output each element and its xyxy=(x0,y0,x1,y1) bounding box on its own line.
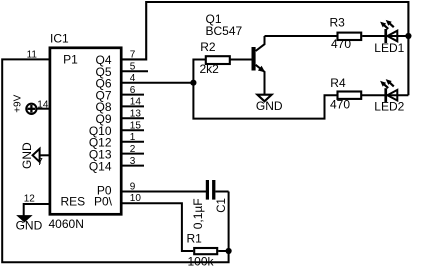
svg-text:15: 15 xyxy=(130,121,142,132)
junction at LED1 / right rail xyxy=(405,33,411,39)
svg-text:11: 11 xyxy=(27,50,38,61)
svg-text:100k: 100k xyxy=(188,254,215,268)
junction at R1 / right loop xyxy=(226,248,232,254)
ground symbol at Q1 emitter xyxy=(257,95,271,102)
svg-text:+9V: +9V xyxy=(13,94,24,112)
transistor Q1 emitter lead xyxy=(256,65,265,95)
wire pin 12 (RES) to GND xyxy=(24,204,49,216)
svg-text:R2: R2 xyxy=(200,40,216,54)
svg-text:6: 6 xyxy=(130,85,136,96)
transistor Q1 collector lead xyxy=(256,36,265,51)
transistor Q1 base bar xyxy=(252,47,256,71)
wire pin 15 stub xyxy=(123,129,145,131)
wire R4 right through LED2 to right rail xyxy=(362,94,409,96)
svg-text:IC1: IC1 xyxy=(50,32,69,46)
svg-text:R4: R4 xyxy=(330,76,346,90)
wire pin 4 (Q6) to junction xyxy=(123,82,194,84)
svg-text:10: 10 xyxy=(130,193,142,204)
svg-text:13: 13 xyxy=(130,109,142,120)
svg-text:C1: C1 xyxy=(216,198,228,213)
wire GND to pin 7 left xyxy=(40,154,49,156)
svg-text:LED2: LED2 xyxy=(374,100,404,114)
wire pin 1 stub xyxy=(123,141,145,143)
svg-text:Q14: Q14 xyxy=(89,159,112,173)
svg-text:9: 9 xyxy=(130,181,136,192)
svg-text:0,1µF: 0,1µF xyxy=(191,198,205,229)
svg-text:4: 4 xyxy=(130,73,136,84)
svg-text:GND: GND xyxy=(20,142,34,169)
svg-text:GND: GND xyxy=(16,219,43,233)
svg-text:GND: GND xyxy=(256,99,283,113)
svg-text:14: 14 xyxy=(37,100,49,111)
svg-text:470: 470 xyxy=(331,37,351,51)
LED2 emission arrow b xyxy=(389,82,394,86)
ground symbol at pin 12 xyxy=(19,216,31,221)
svg-text:LED1: LED1 xyxy=(374,41,404,55)
svg-text:470: 470 xyxy=(330,98,350,112)
wire C1 right plate to right loop xyxy=(215,191,228,193)
svg-text:RES: RES xyxy=(61,195,86,209)
wire pin 14 stub xyxy=(123,105,145,107)
svg-text:14: 14 xyxy=(130,97,142,108)
wire pin 3 stub xyxy=(123,165,145,167)
ground symbol at IC pin 7 xyxy=(33,149,40,162)
wire R3 right through LED1 to right rail xyxy=(362,35,408,37)
wire +9V to pin 14 xyxy=(36,108,49,110)
wire Q4 (pin 7) to top rail and right rail down to LED2 xyxy=(123,2,409,95)
wire R1 right to right loop xyxy=(218,250,228,252)
svg-text:P0\: P0\ xyxy=(94,195,113,209)
LED1 diode cathode bar xyxy=(384,29,387,43)
svg-text:3: 3 xyxy=(130,156,136,167)
LED1 diode triangle xyxy=(387,31,397,42)
transistor Q1 emitter arrowhead xyxy=(258,66,265,73)
resistor R1 body xyxy=(194,248,217,254)
svg-text:1: 1 xyxy=(130,132,136,143)
svg-text:BC547: BC547 xyxy=(206,24,243,38)
LED2 diode triangle xyxy=(387,90,397,101)
svg-text:5: 5 xyxy=(130,62,136,73)
wire pin 10 (P0\) to R1 left xyxy=(123,203,194,251)
power +9V terminal circle xyxy=(26,104,36,114)
svg-text:P1: P1 xyxy=(63,53,78,67)
wire pin 2 stub xyxy=(123,153,145,155)
wire junction down and across to R4 xyxy=(193,83,336,119)
svg-text:7: 7 xyxy=(130,50,136,61)
svg-text:R1: R1 xyxy=(187,232,203,246)
IC IC1 4060N body xyxy=(50,48,121,215)
svg-text:12: 12 xyxy=(24,193,36,204)
LED2 diode cathode bar xyxy=(384,88,387,102)
wire pin 5 stub xyxy=(123,70,149,72)
wire junction to R2 left xyxy=(193,60,205,83)
svg-text:4060N: 4060N xyxy=(49,217,84,231)
svg-text:2: 2 xyxy=(130,144,136,155)
capacitor C1 left plate xyxy=(206,180,209,200)
resistor R2 body xyxy=(206,56,230,64)
wire Q1 collector to R3 xyxy=(265,35,337,37)
junction at pin 4 / R2 xyxy=(190,80,196,86)
LED2 emission arrow a xyxy=(380,79,394,88)
wire pin 13 stub xyxy=(123,117,145,119)
LED1 emission arrow b xyxy=(389,23,394,27)
svg-text:R3: R3 xyxy=(330,16,346,30)
wire pin 11 (P1) left rail to bottom rail to R1/C1 right xyxy=(2,59,228,262)
wire pin 6 stub xyxy=(123,94,145,96)
LED1 emission arrow a xyxy=(380,20,394,29)
resistor R3 body xyxy=(338,33,362,40)
wire pin 9 (P0) to C1 xyxy=(123,191,207,193)
svg-text:2k2: 2k2 xyxy=(200,62,220,76)
wire R2 right to Q1 base xyxy=(231,59,253,61)
capacitor C1 right plate xyxy=(212,180,215,200)
resistor R4 body xyxy=(338,92,362,99)
